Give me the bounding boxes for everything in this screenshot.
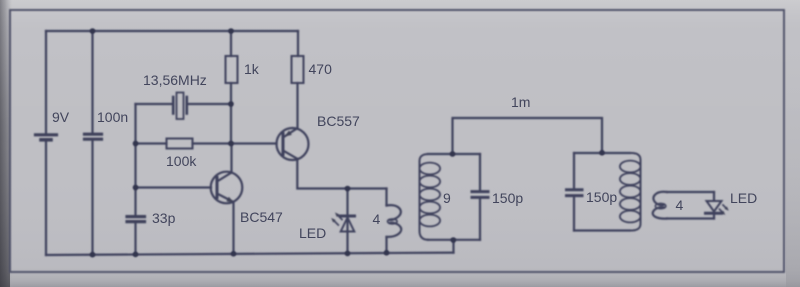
wire 1m link tank1 to tank2 <box>453 118 603 154</box>
svg-text:100n: 100n <box>97 109 128 125</box>
wire LED D1 cathode lead <box>346 217 348 253</box>
junction tank2 top / 1m wire <box>599 150 605 156</box>
resistor R2 470 <box>292 56 304 83</box>
wire bottom ground rail <box>46 253 454 255</box>
wire crystal left lead <box>136 103 173 105</box>
wire L1 top lead <box>385 189 387 206</box>
wire receiver loop top <box>667 191 714 193</box>
svg-text:1k: 1k <box>244 61 260 77</box>
wire LED D2 cathode lead <box>713 214 715 219</box>
junction 100k row / collector node <box>228 141 234 147</box>
wire C4 top lead <box>573 153 575 188</box>
wire receiver loop bottom <box>667 217 714 219</box>
wire tank2 bottom <box>574 229 630 231</box>
wire tank2 top <box>574 152 630 154</box>
junction tank1 bottom / ground riser <box>451 237 457 243</box>
resistor R3 100k <box>167 139 193 149</box>
capacitor C2 33p <box>127 215 145 218</box>
junction tank1 top / 1m wire <box>450 151 456 157</box>
LED D1 light arrow upper <box>337 215 342 220</box>
junction collector wire / D1 top <box>345 186 351 192</box>
capacitor C1 100n <box>85 133 102 136</box>
junction top rail / C1 <box>90 28 96 34</box>
wire 33p bottom lead <box>134 223 136 255</box>
wire battery positive lead <box>45 31 47 133</box>
capacitor C3 150p <box>472 190 488 193</box>
svg-text:BC557: BC557 <box>317 113 360 129</box>
svg-text:150p: 150p <box>492 190 523 206</box>
svg-text:LED: LED <box>730 190 757 206</box>
svg-text:100k: 100k <box>166 153 197 169</box>
wire 1k bottom lead <box>230 83 232 104</box>
transistor Q2 BC557 <box>277 128 309 160</box>
junction ground rail / Q1 emitter <box>231 251 237 257</box>
wire top supply rail <box>46 30 298 32</box>
wire ground rail riser to tank1 <box>452 240 454 253</box>
battery BT1 9V <box>36 133 57 136</box>
wire LED D2 anode lead <box>713 192 715 201</box>
LED D1 light arrow lower <box>334 220 339 225</box>
wire battery negative lead <box>45 141 47 255</box>
wire tank1 bottom <box>428 239 480 241</box>
wire 1k top lead <box>230 31 232 56</box>
wire 100k right lead to BC557 base <box>193 142 277 144</box>
junction crystal / R1 / collector node <box>228 101 234 107</box>
junction ground rail / C1 <box>90 252 96 258</box>
capacitor C4 150p <box>567 188 583 191</box>
svg-text:33p: 33p <box>152 210 176 226</box>
wire crystal right lead <box>188 103 231 105</box>
LED D2 light arrow lower <box>720 209 724 213</box>
inductor L2 9 turns <box>420 154 429 240</box>
wire BC547 emitter to ground rail <box>232 202 234 254</box>
crystal X1 13,56MHz <box>172 97 175 114</box>
wire 100n bottom lead <box>91 140 93 255</box>
svg-text:150p: 150p <box>586 189 617 205</box>
LED D1 <box>341 215 355 218</box>
svg-text:9V: 9V <box>52 109 70 125</box>
junction ground rail / L1 <box>384 250 390 256</box>
wire 470 top lead <box>296 31 299 56</box>
svg-text:4: 4 <box>373 211 381 227</box>
wire BC557 collector down and right to LED/L1 <box>297 159 386 189</box>
svg-text:9: 9 <box>443 190 451 206</box>
wire node crystal-right to 100k row <box>230 104 232 144</box>
junction left branch / 100k row <box>133 141 139 147</box>
inductor L4 4 turns <box>653 192 667 205</box>
svg-text:13,56MHz: 13,56MHz <box>143 72 207 88</box>
inductor L3 9 turns <box>632 153 641 231</box>
LED D2 <box>707 201 722 212</box>
wire C3 bottom lead <box>479 199 481 240</box>
wire 100k left lead <box>136 142 167 144</box>
junction top rail / R1 <box>228 28 234 34</box>
inductor L1 4 turns <box>387 205 401 220</box>
wire BC547 base row <box>136 186 212 188</box>
svg-text:1m: 1m <box>511 94 530 110</box>
transistor Q1 BC547 <box>211 172 243 204</box>
svg-text:4: 4 <box>676 197 684 213</box>
junction ground rail / D1 <box>345 251 351 257</box>
wire 100k row to BC547 collector <box>230 144 232 173</box>
resistor R1 1k <box>226 56 238 83</box>
junction left branch / base row <box>133 185 139 191</box>
wire LED D1 anode lead <box>346 189 348 215</box>
LED D2 light arrow upper <box>723 205 727 209</box>
junction ground rail / C2 <box>133 252 139 258</box>
wire L1 bottom lead <box>385 237 387 253</box>
wire C4 bottom lead <box>573 197 575 231</box>
wire oscillator left branch <box>134 104 136 215</box>
svg-text:470: 470 <box>309 61 333 77</box>
wire 100n top lead <box>91 31 93 132</box>
wire C3 top lead <box>479 154 481 190</box>
svg-text:LED: LED <box>299 225 326 241</box>
wire 470 bottom lead to BC557 emitter <box>296 83 298 129</box>
svg-text:BC547: BC547 <box>240 209 283 225</box>
wire tank1 top <box>428 153 480 155</box>
